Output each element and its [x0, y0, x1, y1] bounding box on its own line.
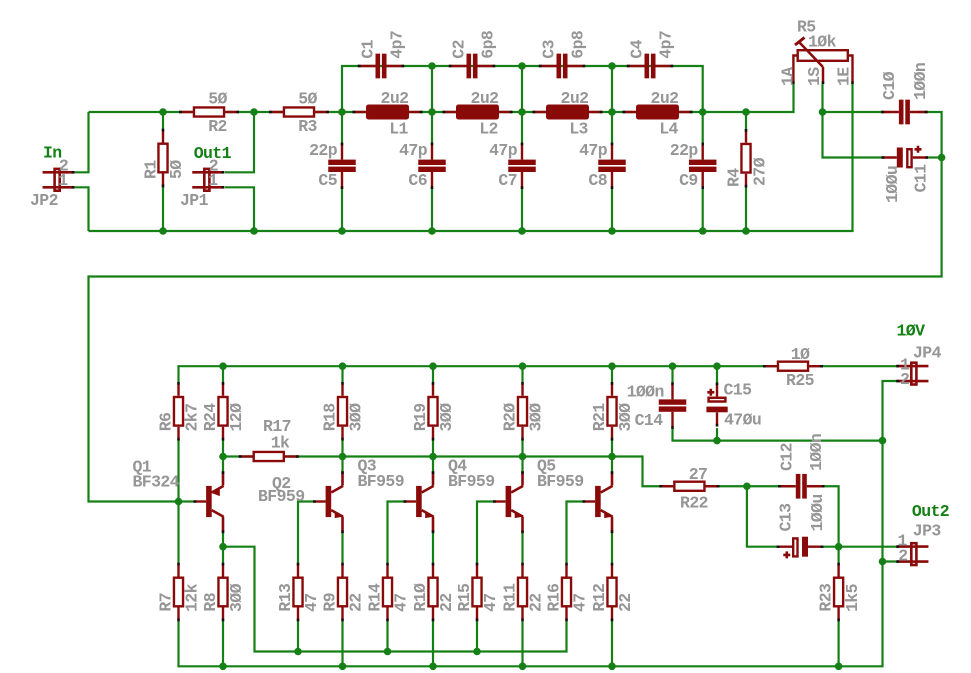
wire resistor col 522.5 to ground rail: [521, 621, 523, 666]
junction collector line x=612: [608, 453, 616, 461]
svg-text:2: 2: [900, 370, 909, 389]
svg-text:JP2: JP2: [30, 191, 58, 210]
svg-text:R19: R19: [411, 403, 430, 431]
svg-text:R8: R8: [201, 592, 220, 611]
resistor R18: [338, 382, 347, 441]
svg-text:1ØØu: 1ØØu: [808, 494, 827, 531]
wire JP3 pin2: [883, 560, 899, 562]
svg-text:C13: C13: [777, 503, 796, 532]
svg-text:2u2: 2u2: [651, 89, 679, 108]
junction main line x=163: [159, 108, 167, 116]
capacitor C6: [418, 143, 446, 189]
wire resistor col 342.5 to ground rail: [341, 621, 343, 666]
wire C13 to JP3 pin1: [822, 546, 899, 548]
junction supply rail x=672.5: [669, 362, 677, 370]
wire base col 477 to rail A: [476, 621, 478, 651]
junction collector line x=433: [429, 453, 437, 461]
junction ground rail x=433: [429, 663, 437, 671]
svg-text:2k7: 2k7: [183, 404, 202, 432]
wire R1 top: [162, 112, 164, 129]
svg-text:C12: C12: [778, 443, 797, 471]
inductor L1: [353, 105, 423, 120]
resistor R23: [834, 563, 843, 622]
junction collector line x=223: [219, 453, 227, 461]
capacitor C7: [508, 143, 536, 189]
svg-text:1E: 1E: [835, 67, 854, 86]
resistor R16: [562, 563, 571, 622]
wire emitter col 342.5: [341, 533, 343, 563]
wire base col 298 to rail A: [297, 621, 299, 651]
svg-text:1: 1: [58, 171, 68, 190]
wire ground rail top section: [89, 84, 853, 231]
junction ground rail x=522.5: [519, 663, 527, 671]
svg-text:R25: R25: [786, 371, 815, 390]
svg-text:JP4: JP4: [913, 344, 942, 363]
junction ground rail x=746: [742, 227, 750, 235]
junction ground rail x=612: [608, 227, 616, 235]
svg-text:1ØV: 1ØV: [897, 322, 926, 341]
wire shunt C9 top: [702, 112, 704, 143]
wire base resistor col 298 to base: [298, 502, 313, 564]
svg-text:BF959: BF959: [537, 472, 584, 491]
connector JP4: [896, 363, 928, 385]
junction top line x=612: [608, 62, 616, 70]
capacitor C15: [706, 383, 727, 427]
svg-text:47Øu: 47Øu: [724, 411, 761, 430]
capacitor C12: [778, 474, 824, 499]
resistor R7: [174, 563, 183, 622]
wire shunt C7 bottom: [521, 189, 523, 231]
wire shunt C8 top: [611, 112, 613, 143]
svg-text:L1: L1: [389, 120, 408, 139]
junction ground line right riser: [879, 437, 887, 445]
wire C14 top: [671, 366, 673, 383]
svg-text:R4: R4: [725, 168, 744, 187]
svg-text:C15: C15: [724, 380, 753, 399]
wire JP1 pin 1 down: [225, 187, 254, 231]
resistor R8: [218, 563, 227, 622]
junction supply rail x=342.5: [339, 362, 347, 370]
svg-text:C7: C7: [498, 171, 517, 190]
svg-text:1A: 1A: [778, 67, 797, 86]
wire R6 column through base node: [177, 440, 179, 563]
svg-text:BF959: BF959: [448, 472, 495, 491]
wire C14 bottom ground line: [673, 428, 883, 441]
svg-text:C6: C6: [408, 171, 427, 190]
capacitor C14: [659, 382, 687, 428]
wire shunt C5 bottom: [341, 189, 343, 231]
junction main line x=702.7: [699, 108, 707, 116]
junction ground rail x=163: [159, 227, 167, 235]
wire emitter col 433: [432, 533, 434, 563]
resistor R3: [269, 107, 329, 116]
svg-text:1S: 1S: [805, 67, 824, 86]
svg-text:12k: 12k: [183, 583, 202, 612]
junction ground rail x=522: [518, 227, 526, 235]
svg-text:2u2: 2u2: [561, 89, 589, 108]
junction supply rail x=717: [713, 362, 721, 370]
svg-text:1ØØn: 1ØØn: [807, 434, 826, 471]
svg-text:1Ø: 1Ø: [791, 345, 810, 364]
svg-text:2: 2: [898, 547, 907, 566]
svg-text:22p: 22p: [309, 141, 338, 160]
wire C12 right down to output node: [824, 486, 839, 546]
wire C2 column: [431, 66, 433, 112]
junction ground rail x=223: [219, 663, 227, 671]
svg-text:47: 47: [571, 593, 590, 612]
svg-text:27: 27: [689, 465, 708, 484]
wire Q1 emitter to R8: [222, 533, 224, 563]
svg-text:R18: R18: [321, 403, 340, 432]
wire shunt C6 bottom: [431, 189, 433, 231]
connector JP1: [192, 169, 224, 191]
wire R col 342.5 bottom to collector line: [341, 440, 343, 456]
svg-text:C1: C1: [359, 39, 378, 58]
svg-text:R9: R9: [321, 593, 340, 612]
resistor R21: [607, 382, 616, 441]
junction C11 output node: [938, 154, 946, 162]
capacitor C5: [328, 143, 356, 189]
transistor Q3: [404, 471, 434, 533]
svg-text:R15: R15: [455, 583, 474, 612]
transistor Q1: [194, 471, 224, 533]
wire shunt C8 bottom: [611, 189, 613, 231]
wire resistor col 433 to ground rail: [432, 621, 434, 666]
inductor L4: [623, 105, 693, 120]
svg-text:C11: C11: [912, 164, 931, 193]
transistor Q4: [493, 471, 523, 533]
svg-text:22p: 22p: [670, 141, 699, 160]
svg-text:C5: C5: [318, 171, 337, 190]
svg-text:R23: R23: [817, 583, 836, 612]
junction rail A x=477: [473, 648, 481, 656]
svg-text:R7: R7: [157, 593, 176, 612]
junction rail A x=387.5: [384, 648, 392, 656]
svg-text:47: 47: [481, 593, 500, 612]
wire JP2 pin 1 to ground rail: [75, 187, 89, 231]
wire collector col 612: [611, 457, 613, 474]
wire base col 387.5 to rail A: [386, 621, 388, 651]
svg-text:R2Ø: R2Ø: [501, 403, 520, 432]
svg-text:R1: R1: [141, 160, 160, 179]
resistor R22: [659, 482, 719, 491]
wire shunt C5 top: [341, 112, 343, 143]
svg-text:R22: R22: [680, 494, 708, 513]
svg-text:22: 22: [437, 593, 456, 612]
capacitor C4: [627, 54, 673, 79]
svg-text:47p: 47p: [579, 141, 608, 160]
svg-text:R1Ø: R1Ø: [411, 583, 430, 612]
wire base resistor col 477 to base: [477, 502, 493, 564]
junction base feed node: [175, 498, 183, 506]
transistor Q5: [583, 471, 613, 533]
wire output node to C10: [823, 111, 890, 113]
svg-text:R6: R6: [157, 413, 176, 432]
wire resistor col 612 to ground rail: [611, 621, 613, 666]
wire R5 wiper to output node: [823, 84, 882, 158]
svg-text:1: 1: [208, 171, 218, 190]
junction top line x=522: [518, 62, 526, 70]
resistor R19: [428, 382, 437, 441]
junction supply rail x=612: [608, 362, 616, 370]
resistor R14: [383, 563, 392, 622]
junction main line x=254: [250, 108, 258, 116]
wire shunt C9 bottom: [702, 189, 704, 231]
svg-text:C8: C8: [588, 171, 607, 190]
svg-text:6p8: 6p8: [478, 30, 497, 59]
resistor R4: [741, 129, 750, 188]
potentiometer R5: [793, 38, 852, 85]
wire top capacitor line: [342, 66, 703, 112]
wire shunt C6 top: [431, 112, 433, 143]
svg-text:47p: 47p: [399, 141, 428, 160]
svg-text:R13: R13: [276, 583, 295, 612]
svg-text:R11: R11: [501, 583, 520, 612]
wire ground rail bottom and right riser: [179, 381, 899, 666]
wire rail to resistor col 612: [611, 366, 613, 382]
junction main line x=432: [428, 108, 436, 116]
wire resistor col 223 to ground rail: [222, 621, 224, 666]
wire collector col 522.5: [521, 457, 523, 474]
wire rail to resistor col 223: [222, 366, 224, 382]
svg-text:JP3: JP3: [913, 522, 942, 541]
wire collector line: [223, 440, 779, 486]
svg-text:R3: R3: [298, 117, 317, 136]
resistor R24: [218, 382, 227, 441]
wire C10 to C11 right and long link to amplifier input: [89, 112, 942, 502]
wire R4 top: [745, 112, 747, 130]
wire rail to resistor col 342.5: [341, 366, 343, 382]
wire Q1 node to input distribution rail: [223, 547, 567, 652]
capacitor C9: [689, 143, 717, 189]
svg-text:R24: R24: [201, 403, 220, 432]
capacitor C3: [539, 54, 585, 79]
resistor R10: [428, 563, 437, 622]
svg-text:3ØØ: 3ØØ: [527, 403, 546, 432]
capacitor C8: [598, 143, 626, 189]
resistor R25: [763, 362, 823, 371]
svg-text:R14: R14: [366, 583, 385, 612]
junction output node C13: [835, 543, 843, 551]
svg-text:1k: 1k: [271, 434, 290, 453]
junction main line x=522: [518, 108, 526, 116]
svg-text:2u2: 2u2: [381, 89, 409, 108]
inductor L3: [533, 105, 603, 120]
capacitor C1: [358, 54, 404, 79]
svg-text:5Ø: 5Ø: [298, 90, 317, 109]
capacitor C10: [881, 100, 927, 125]
svg-text:4p7: 4p7: [387, 31, 406, 59]
resistor R17: [239, 452, 299, 461]
junction main line x=612: [608, 108, 616, 116]
wire rail to resistor col 433: [432, 366, 434, 382]
svg-text:5Ø: 5Ø: [167, 160, 186, 179]
wire R col 612 bottom to collector line: [611, 440, 613, 456]
wire JP1 pin 2 up: [225, 112, 254, 172]
svg-text:1ØØn: 1ØØn: [627, 382, 664, 401]
svg-text:C3: C3: [540, 39, 559, 58]
svg-text:4p7: 4p7: [656, 31, 675, 59]
svg-text:22: 22: [527, 593, 546, 612]
junction collector line x=342.5: [339, 453, 347, 461]
junction supply rail x=433: [429, 362, 437, 370]
wire R col 433 bottom to collector line: [432, 440, 434, 456]
capacitor C2: [449, 54, 495, 79]
inductor L2: [443, 105, 513, 120]
svg-text:R16: R16: [545, 584, 564, 612]
svg-text:22: 22: [347, 593, 366, 612]
svg-text:C2: C2: [450, 40, 469, 59]
svg-text:1k5: 1k5: [843, 583, 862, 612]
resistor R2: [179, 107, 239, 116]
wire R23 top: [837, 547, 839, 564]
junction ground rail x=254: [250, 227, 258, 235]
resistor R15: [472, 563, 481, 622]
resistor R20: [518, 382, 527, 441]
junction main line x=746: [742, 108, 750, 116]
resistor R12: [607, 563, 616, 622]
svg-text:27Ø: 27Ø: [751, 157, 770, 186]
wire C15 top: [716, 366, 718, 383]
wire Q1 collector down: [222, 457, 224, 474]
junction ground rail x=838.6: [835, 663, 843, 671]
svg-text:22: 22: [616, 593, 635, 612]
svg-text:R2: R2: [208, 117, 227, 136]
svg-text:L2: L2: [479, 120, 498, 139]
junction JP3 pin2 node: [879, 558, 887, 566]
svg-text:3ØØ: 3ØØ: [437, 403, 456, 432]
junction ground rail x=342.5: [339, 663, 347, 671]
svg-text:L4: L4: [659, 120, 678, 139]
wire C4 column: [611, 66, 613, 112]
svg-text:3ØØ: 3ØØ: [616, 403, 635, 432]
connector JP2: [43, 169, 75, 191]
wire base resistor col 566.5 to base: [567, 502, 583, 564]
wire collector col 342.5: [341, 457, 343, 474]
junction main line x=342: [338, 108, 346, 116]
junction rail A x=298: [294, 648, 302, 656]
wire supply rail: [179, 366, 898, 382]
wire C15 bottom: [716, 428, 718, 441]
junction collector line x=522.5: [519, 453, 527, 461]
junction main line x=822.5: [819, 108, 827, 116]
svg-text:47p: 47p: [489, 141, 518, 160]
wire C11 right: [928, 156, 942, 158]
capacitor C13: [777, 537, 824, 559]
resistor R9: [338, 563, 347, 622]
junction ground rail x=702.7: [699, 227, 707, 235]
svg-text:1ØØu: 1ØØu: [883, 166, 902, 203]
svg-text:47: 47: [392, 593, 411, 612]
wire collector col 433: [432, 457, 434, 474]
resistor R6: [174, 382, 183, 441]
connector JP3: [896, 543, 928, 565]
junction supply rail x=223: [219, 362, 227, 370]
svg-text:L3: L3: [569, 120, 588, 139]
svg-text:1Øk: 1Øk: [808, 33, 837, 52]
svg-text:R21: R21: [590, 403, 609, 432]
svg-text:BF324: BF324: [133, 473, 180, 492]
junction ground line C15: [713, 437, 721, 445]
svg-text:C9: C9: [679, 171, 698, 190]
wire R22 node down to C13 line: [747, 486, 779, 546]
junction ground rail x=342: [338, 227, 346, 235]
junction ground rail x=432: [428, 227, 436, 235]
resistor R13: [293, 563, 302, 622]
svg-text:5Ø: 5Ø: [208, 90, 227, 109]
wire resistor col 838.6 to ground rail: [837, 621, 839, 666]
svg-text:6p8: 6p8: [568, 30, 587, 59]
svg-text:1ØØn: 1ØØn: [911, 63, 930, 100]
wire JP2 pin 2 to net In: [75, 112, 89, 172]
junction supply rail x=522.5: [519, 362, 527, 370]
junction ground rail x=612: [608, 663, 616, 671]
svg-text:47: 47: [302, 593, 321, 612]
wire rail to resistor col 522.5: [521, 366, 523, 382]
svg-text:C4: C4: [628, 39, 647, 58]
svg-text:BF959: BF959: [258, 487, 305, 506]
svg-text:JP1: JP1: [180, 191, 209, 210]
svg-text:R12: R12: [590, 584, 609, 612]
resistor R1: [158, 129, 167, 188]
wire emitter col 612: [611, 533, 613, 563]
junction R22 C12 node: [743, 482, 751, 490]
wire shunt C7 top: [521, 112, 523, 143]
svg-text:12Ø: 12Ø: [227, 403, 246, 432]
svg-text:3ØØ: 3ØØ: [227, 583, 246, 612]
wire R col 522.5 bottom to collector line: [521, 440, 523, 456]
resistor R11: [518, 563, 527, 622]
junction Q1 collector node: [219, 543, 227, 551]
transistor Q2: [313, 471, 343, 533]
svg-text:BF959: BF959: [358, 472, 405, 491]
wire R1 bottom: [162, 187, 164, 231]
svg-text:C14: C14: [635, 411, 664, 430]
capacitor C11: [882, 146, 929, 168]
wire main signal line: [89, 84, 794, 112]
svg-text:2u2: 2u2: [471, 89, 499, 108]
svg-text:C1Ø: C1Ø: [880, 71, 899, 100]
svg-text:3ØØ: 3ØØ: [347, 403, 366, 432]
wire C3 column: [521, 66, 523, 112]
wire R4 bottom: [745, 187, 747, 231]
junction top line x=432: [428, 62, 436, 70]
wire emitter col 522.5: [521, 533, 523, 563]
wire base resistor col 387.5 to base: [388, 502, 404, 564]
svg-text:Out2: Out2: [912, 502, 949, 521]
